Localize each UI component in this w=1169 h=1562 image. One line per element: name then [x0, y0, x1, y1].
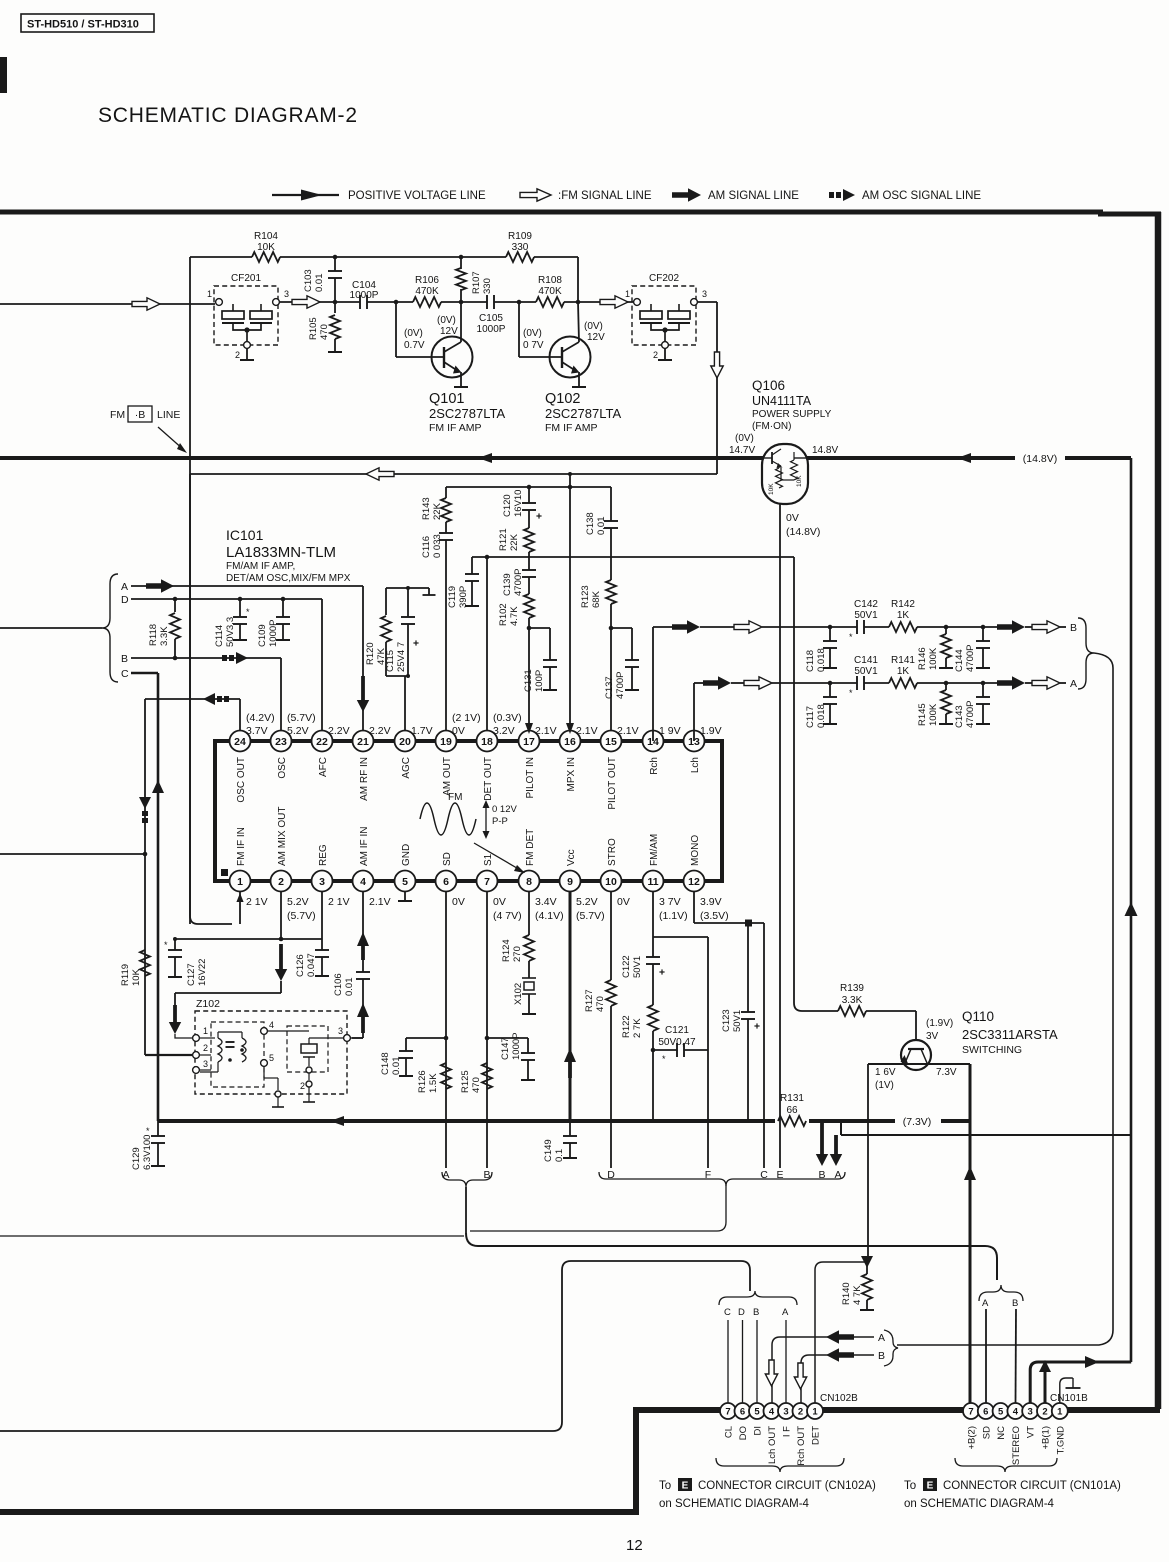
- svg-text:Lch OUT: Lch OUT: [767, 1426, 778, 1464]
- svg-text:4700P: 4700P: [615, 672, 626, 699]
- svg-text:FM/AM: FM/AM: [649, 834, 660, 866]
- svg-text:CL: CL: [724, 1426, 735, 1438]
- ground CF201 pin2: [246, 348, 248, 360]
- brace over CN101 A B: [979, 1285, 1023, 1301]
- capacitor C143: [982, 683, 984, 697]
- svg-text:DET OUT: DET OUT: [483, 757, 494, 801]
- capacitor C114: [239, 599, 241, 617]
- capacitor C144: [982, 627, 984, 641]
- svg-text:(5.7V): (5.7V): [287, 712, 316, 724]
- svg-text:(7.3V): (7.3V): [903, 1116, 932, 1128]
- wire Q101 collector: [460, 302, 462, 342]
- svg-text:4700P: 4700P: [965, 701, 976, 728]
- resistor R109: [506, 252, 534, 262]
- svg-text:2.2V: 2.2V: [328, 725, 350, 737]
- svg-text:2SC2787LTA: 2SC2787LTA: [545, 406, 621, 421]
- svg-text:AM IF IN: AM IF IN: [359, 827, 370, 866]
- FM arrow down on CF202 drop: [711, 352, 723, 378]
- svg-text:AM RF IN: AM RF IN: [359, 757, 370, 801]
- CN102B pin 6: [735, 1403, 751, 1419]
- svg-text:2.2V: 2.2V: [369, 725, 391, 737]
- svg-text:R106: R106: [415, 275, 439, 286]
- svg-text:R127: R127: [584, 989, 595, 1012]
- svg-text:5: 5: [402, 876, 408, 888]
- svg-text:X102: X102: [513, 983, 524, 1005]
- svg-text:B: B: [878, 1350, 885, 1362]
- svg-text:R141: R141: [891, 655, 915, 666]
- right border line: [1155, 212, 1162, 1409]
- svg-text:B: B: [753, 1307, 759, 1318]
- svg-text:UN4111TA: UN4111TA: [752, 394, 812, 408]
- capacitor C126: [321, 891, 323, 939]
- svg-text:1 9V: 1 9V: [659, 725, 681, 737]
- svg-text:470: 470: [595, 996, 606, 1012]
- wire VT pin3 elbow to 14.8V line: [1030, 1362, 1131, 1403]
- wire +B(1) pin2 up arrow: [1044, 1372, 1047, 1403]
- node B wire (AM OSC): [131, 657, 281, 659]
- svg-text:1000P: 1000P: [477, 324, 506, 335]
- svg-text:R118: R118: [148, 624, 159, 646]
- svg-text:C121: C121: [665, 1025, 689, 1036]
- svg-text:FM DET: FM DET: [525, 829, 536, 866]
- IC101 package box: [215, 741, 722, 881]
- capacitor C137: [609, 626, 614, 631]
- svg-text:IC101: IC101: [226, 527, 264, 543]
- resistor R141: [889, 678, 917, 688]
- stub to FM rail: [569, 474, 571, 487]
- svg-text:A: A: [121, 581, 128, 593]
- CN101B pin 3: [1022, 1403, 1038, 1419]
- svg-text:C131: C131: [523, 669, 534, 692]
- wire B leg to CN101B pin4: [1015, 1309, 1018, 1403]
- decoupling rail y=939: [175, 938, 322, 940]
- AM mix rail y=993: [175, 992, 281, 994]
- pin 2 AM MIX OUT: [271, 871, 292, 892]
- capacitor C147: [487, 1037, 528, 1039]
- svg-text:REG: REG: [318, 844, 329, 866]
- wire: main IF line segments: [367, 301, 413, 303]
- svg-text:R104: R104: [254, 231, 278, 242]
- wire D leg to pin6: [742, 1320, 744, 1403]
- svg-text:1: 1: [203, 1026, 208, 1036]
- svg-text:Q101: Q101: [429, 391, 464, 407]
- svg-text:3.4V: 3.4V: [535, 896, 557, 908]
- svg-text:FM IF AMP: FM IF AMP: [429, 422, 482, 434]
- svg-text:R105: R105: [308, 317, 319, 340]
- resistor R118: [174, 599, 176, 612]
- svg-text:12V: 12V: [440, 326, 458, 337]
- flow arrow up on 14.8V vertical: [1125, 902, 1138, 916]
- svg-text:B: B: [1070, 622, 1077, 634]
- wire: stereo pair down right side: [897, 653, 1113, 1345]
- brace joining A B rows: [884, 1330, 898, 1366]
- pin 22 AFC: [312, 731, 333, 752]
- svg-text:0.018: 0.018: [816, 648, 827, 672]
- capacitor C104: [359, 295, 361, 309]
- svg-text:Q102: Q102: [545, 391, 580, 407]
- svg-text:STRO: STRO: [607, 838, 618, 866]
- svg-text:4: 4: [269, 1020, 274, 1030]
- svg-text:A: A: [782, 1307, 789, 1318]
- wire A/B pair down: [465, 1187, 467, 1233]
- svg-text:470: 470: [319, 324, 330, 340]
- svg-text:3: 3: [702, 289, 707, 299]
- svg-text:ST-HD510 / ST-HD310: ST-HD510 / ST-HD310: [27, 19, 139, 31]
- svg-text:C115: C115: [385, 650, 396, 672]
- svg-text:23: 23: [275, 736, 287, 748]
- svg-text:11: 11: [647, 876, 658, 888]
- svg-text:0.01: 0.01: [344, 978, 355, 997]
- svg-text:1000P: 1000P: [511, 1033, 522, 1060]
- svg-text:2 1V: 2 1V: [246, 896, 268, 908]
- svg-text:D: D: [121, 594, 129, 606]
- svg-text:C144: C144: [954, 649, 965, 672]
- svg-text:DI: DI: [753, 1426, 764, 1436]
- svg-text:SD: SD: [442, 852, 453, 866]
- wire T.GND pin1 to ground: [1060, 1378, 1073, 1403]
- svg-text:(4.1V): (4.1V): [535, 910, 564, 922]
- svg-text:CN102B: CN102B: [820, 1393, 858, 1404]
- svg-text:12: 12: [626, 1537, 643, 1554]
- svg-text:1 6V: 1 6V: [875, 1067, 896, 1078]
- svg-text:0V: 0V: [786, 512, 799, 524]
- legend FM signal line: [520, 189, 551, 201]
- Z102 grounds: [308, 1087, 310, 1102]
- arrow to FM DET pin8: [474, 843, 522, 871]
- svg-text:470K: 470K: [415, 286, 439, 297]
- svg-text:7: 7: [968, 1406, 973, 1417]
- svg-text:66: 66: [786, 1105, 798, 1116]
- CN102B pin 4: [764, 1403, 780, 1419]
- svg-text:To: To: [904, 1480, 916, 1492]
- svg-text:B: B: [1012, 1298, 1018, 1309]
- svg-text:E: E: [682, 1481, 689, 1492]
- svg-text:1.5K: 1.5K: [428, 1073, 439, 1093]
- svg-text:(4 7V): (4 7V): [493, 910, 522, 922]
- svg-text:1.9V: 1.9V: [700, 725, 722, 737]
- svg-text:T.GND: T.GND: [1055, 1426, 1066, 1455]
- FM arrow after CF201: [280, 301, 360, 303]
- svg-text:on SCHEMATIC DIAGRAM-4: on SCHEMATIC DIAGRAM-4: [904, 1498, 1055, 1510]
- svg-text:POWER SUPPLY: POWER SUPPLY: [752, 409, 832, 420]
- svg-text:2: 2: [653, 350, 658, 360]
- svg-text:1: 1: [207, 289, 212, 299]
- svg-text:1000P: 1000P: [350, 290, 379, 301]
- svg-text:(0V): (0V): [523, 328, 542, 339]
- svg-text:0.01: 0.01: [391, 1057, 402, 1076]
- svg-text:50V0,47: 50V0,47: [658, 1037, 696, 1048]
- svg-text:Z102: Z102: [196, 998, 220, 1010]
- brace under CN101B: [955, 1458, 1057, 1472]
- wire Q101 base: [395, 302, 397, 357]
- wire to input brace: [0, 627, 102, 629]
- svg-text:DO: DO: [738, 1426, 749, 1440]
- svg-text:DET/AM OSC,MIX/FM MPX: DET/AM OSC,MIX/FM MPX: [226, 573, 351, 584]
- svg-text:2: 2: [798, 1406, 803, 1417]
- svg-text:R123: R123: [580, 585, 591, 608]
- CN101B pin 7: [963, 1403, 979, 1419]
- svg-text:50V1: 50V1: [854, 666, 878, 677]
- capacitor C142: [856, 620, 858, 634]
- svg-text:2.1V: 2.1V: [369, 896, 391, 908]
- svg-text:10K: 10K: [257, 242, 275, 253]
- wire pin12 branch down to C: [763, 923, 765, 1168]
- svg-text:470K: 470K: [538, 286, 562, 297]
- wire C leg to pin7: [727, 1320, 729, 1403]
- svg-text:A: A: [878, 1332, 885, 1344]
- wire pin6 to A: [445, 891, 447, 1168]
- wire Q101 emitter + ground: [460, 372, 462, 387]
- bottom border path: [0, 1410, 1160, 1512]
- legend AM OSC signal line: [829, 192, 834, 198]
- wire A leg to pin3: [785, 1320, 787, 1403]
- svg-text:4: 4: [1013, 1406, 1019, 1417]
- svg-text:1K: 1K: [897, 666, 910, 677]
- svg-text:100K: 100K: [928, 647, 939, 670]
- resistor R142: [889, 622, 917, 632]
- svg-text:1: 1: [625, 289, 630, 299]
- svg-text:+B(2): +B(2): [967, 1426, 978, 1450]
- pin 3 REG: [312, 871, 333, 892]
- transistor Q110: [901, 1040, 931, 1070]
- pin 12 MONO: [684, 871, 705, 892]
- svg-text:3V: 3V: [926, 1031, 939, 1042]
- svg-text:A: A: [1070, 678, 1077, 690]
- svg-text:C: C: [121, 668, 129, 680]
- wire from left y=854: [0, 853, 145, 855]
- svg-text:21: 21: [357, 736, 369, 748]
- svg-text:6: 6: [983, 1406, 988, 1417]
- svg-text:C: C: [724, 1307, 731, 1318]
- flow arrow up on C line: [152, 780, 164, 793]
- svg-text:C149: C149: [543, 1139, 554, 1162]
- svg-text:Rch OUT: Rch OUT: [796, 1426, 807, 1466]
- wire pin7 to B: [486, 891, 488, 1168]
- svg-text:3: 3: [319, 876, 325, 888]
- svg-text:R124: R124: [501, 939, 512, 962]
- svg-text:AM OSC SIGNAL LINE: AM OSC SIGNAL LINE: [862, 190, 981, 202]
- svg-text:16V10: 16V10: [513, 490, 524, 517]
- wire: OSC OUT pin24 elbow: [239, 699, 241, 741]
- svg-text:1: 1: [812, 1406, 818, 1417]
- arrowhead on bus: [330, 1116, 344, 1126]
- svg-text:GND: GND: [401, 844, 412, 866]
- svg-text:2 7K: 2 7K: [632, 1018, 643, 1038]
- svg-text:12: 12: [688, 876, 700, 888]
- CN102B pin 1: [807, 1403, 823, 1419]
- pin 19 AM OUT: [436, 731, 457, 752]
- svg-text:(FM·ON): (FM·ON): [752, 421, 791, 432]
- wire: +B thick line y=458: [0, 456, 763, 460]
- svg-text:16V22: 16V22: [197, 959, 208, 986]
- capacitor C141: [856, 676, 858, 690]
- wire DET line down x=794: [793, 557, 795, 1003]
- pin1 index mark: [221, 869, 228, 876]
- svg-text:·B: ·B: [135, 409, 146, 421]
- svg-text:270: 270: [512, 946, 523, 962]
- svg-text:0.1: 0.1: [554, 1149, 565, 1162]
- svg-text:50V1: 50V1: [632, 956, 643, 978]
- svg-text:(1.9V): (1.9V): [926, 1018, 953, 1029]
- svg-text:C119: C119: [447, 586, 458, 608]
- svg-text:NC: NC: [996, 1426, 1007, 1440]
- pin 18 DET OUT: [477, 731, 498, 752]
- CN101B pin 4: [1007, 1403, 1023, 1419]
- left margin bar: [0, 57, 7, 93]
- svg-text:330: 330: [512, 242, 529, 253]
- svg-text:S1: S1: [483, 853, 494, 866]
- svg-text:7: 7: [725, 1406, 730, 1417]
- svg-text:3: 3: [203, 1059, 208, 1069]
- pin 7 S1: [477, 871, 498, 892]
- pin 4 AM IF IN: [353, 871, 374, 892]
- svg-text:12V: 12V: [587, 332, 605, 343]
- svg-text:MPX IN: MPX IN: [566, 757, 577, 791]
- capacitor C131: [527, 626, 532, 631]
- svg-text:2SC2787LTA: 2SC2787LTA: [429, 406, 505, 421]
- pin 9 Vcc: [560, 871, 581, 892]
- svg-text:1.7V: 1.7V: [411, 725, 433, 737]
- svg-text:C141: C141: [854, 655, 878, 666]
- svg-text:(1V): (1V): [875, 1080, 894, 1091]
- svg-text:0V: 0V: [617, 896, 630, 908]
- svg-text:22K: 22K: [432, 502, 443, 520]
- svg-text:R108: R108: [538, 275, 562, 286]
- svg-text:0 7V: 0 7V: [523, 340, 544, 351]
- svg-text:C129: C129: [131, 1147, 142, 1170]
- resistor R124: [528, 891, 530, 935]
- svg-text:CONNECTOR CIRCUIT (CN101A): CONNECTOR CIRCUIT (CN101A): [943, 1480, 1121, 1492]
- svg-text:(0V): (0V): [404, 328, 423, 339]
- svg-text:7.3V: 7.3V: [936, 1067, 957, 1078]
- wire pin4 with C106: [362, 891, 364, 972]
- bracket under D F C E B A: [470, 1172, 726, 1231]
- svg-text::FM SIGNAL LINE: :FM SIGNAL LINE: [558, 190, 652, 202]
- resistor R145: [945, 683, 947, 690]
- wire pin2 down + flow arrow: [280, 891, 282, 939]
- pin 1 FM IF IN: [230, 871, 251, 892]
- svg-text:R102: R102: [498, 603, 509, 626]
- svg-text:R126: R126: [417, 1070, 428, 1093]
- svg-text:R146: R146: [917, 647, 928, 670]
- brace under A B: [442, 1172, 492, 1187]
- capacitor C123: [747, 926, 749, 1012]
- svg-text:C123: C123: [721, 1009, 732, 1032]
- wire: 14.8V down right side x=1131: [1130, 458, 1133, 1362]
- capacitor C127: [174, 939, 176, 950]
- input brace A D B C: [102, 574, 118, 682]
- wire pin9 Vcc thick: [569, 891, 572, 1121]
- crystal X102: [522, 977, 536, 979]
- legend AM signal line: [672, 188, 701, 201]
- svg-text:DET: DET: [811, 1426, 822, 1445]
- svg-text:C122: C122: [621, 955, 632, 978]
- wire: top B+ rail y=257: [190, 256, 252, 258]
- wire from left y=1236: [0, 1235, 464, 1237]
- svg-text:8: 8: [526, 876, 532, 888]
- deviation arrow 0.12V P-P: [485, 803, 487, 836]
- wire R139 to Q110: [866, 1010, 916, 1012]
- svg-text:POSITIVE VOLTAGE LINE: POSITIVE VOLTAGE LINE: [348, 190, 486, 202]
- svg-text:3.2V: 3.2V: [493, 725, 515, 737]
- wire: antenna input to CF201: [0, 303, 215, 305]
- svg-text:C109: C109: [257, 624, 268, 647]
- pin 14 Rch: [643, 731, 664, 752]
- resistor R104: [252, 252, 280, 262]
- svg-text:470: 470: [471, 1077, 482, 1093]
- svg-text:C139: C139: [502, 573, 513, 596]
- svg-text:10K: 10K: [796, 475, 803, 487]
- svg-text:1: 1: [1057, 1406, 1063, 1417]
- svg-text:C127: C127: [186, 963, 197, 986]
- svg-text:3: 3: [338, 1026, 343, 1036]
- pin 11 FM/AM: [643, 871, 664, 892]
- svg-text:C118: C118: [805, 650, 816, 672]
- svg-text:C105: C105: [479, 313, 503, 324]
- capacitor C119: [471, 557, 473, 574]
- Z102 resonator: [301, 1044, 317, 1053]
- resistor R140: [861, 1256, 873, 1268]
- svg-text:2.1V: 2.1V: [535, 725, 557, 737]
- top border line: [0, 210, 1103, 215]
- svg-text:390P: 390P: [458, 586, 469, 608]
- svg-text:10K: 10K: [768, 483, 775, 495]
- resistor R131: [778, 1116, 806, 1126]
- rounded return wire box: [0, 1261, 750, 1431]
- svg-text:68K: 68K: [591, 590, 602, 608]
- svg-text:(0V): (0V): [437, 315, 456, 326]
- svg-text:VT: VT: [1026, 1426, 1037, 1438]
- resistor R102 zigzag: [524, 594, 534, 618]
- svg-text:R139: R139: [840, 983, 864, 994]
- svg-text:6: 6: [740, 1406, 745, 1417]
- svg-text:(1.1V): (1.1V): [659, 910, 688, 922]
- svg-text:R119: R119: [120, 964, 131, 986]
- svg-text:B: B: [121, 653, 128, 665]
- svg-text:R145: R145: [917, 703, 928, 726]
- svg-text:5.2V: 5.2V: [287, 725, 309, 737]
- svg-text:FM: FM: [448, 792, 462, 803]
- arrowheads at pins 17,16: [525, 723, 533, 734]
- svg-text:To: To: [659, 1480, 671, 1492]
- capacitor C117: [829, 683, 831, 697]
- svg-text:3: 3: [1028, 1406, 1033, 1417]
- brace under CN102B: [716, 1458, 844, 1472]
- svg-text:0.047: 0.047: [306, 953, 317, 977]
- wire: DET OUT line y=557: [472, 556, 794, 558]
- svg-text:R121: R121: [498, 528, 509, 551]
- wire merged pair to CN101 brace: [466, 1233, 997, 1280]
- svg-text:R109: R109: [508, 231, 532, 242]
- capacitor C105: [486, 295, 488, 309]
- Z102 transformer: [218, 1038, 222, 1062]
- svg-text:Rch: Rch: [649, 757, 660, 775]
- wire: AM OSC vertical x=145: [144, 699, 146, 1055]
- capacitor C103: [334, 257, 336, 271]
- svg-text:C142: C142: [854, 599, 878, 610]
- svg-text:2.1V: 2.1V: [576, 725, 598, 737]
- svg-text:0 12V: 0 12V: [492, 804, 517, 815]
- svg-text:OSC: OSC: [277, 757, 288, 779]
- svg-text:*: *: [849, 688, 853, 698]
- svg-text:SD: SD: [981, 1426, 992, 1439]
- svg-text:4700P: 4700P: [965, 645, 976, 672]
- svg-text:R143: R143: [421, 497, 432, 520]
- brace over C D B A: [719, 1291, 797, 1305]
- svg-text:C117: C117: [805, 706, 816, 728]
- svg-text:PILOT OUT: PILOT OUT: [607, 757, 618, 810]
- model header box: [21, 14, 154, 32]
